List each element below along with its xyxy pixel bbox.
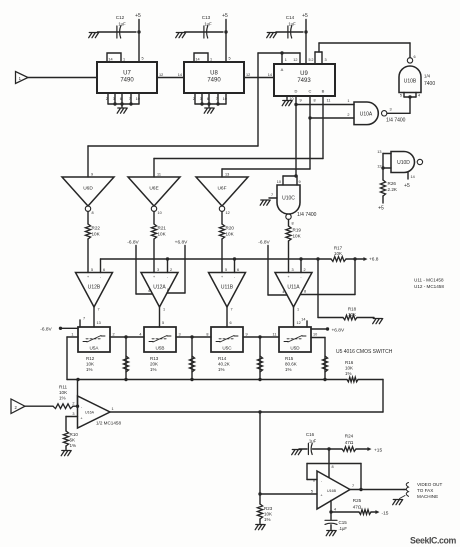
svg-text:-6.8V: -6.8V [40,326,52,332]
svg-text:8: 8 [314,99,316,103]
svg-text:4: 4 [148,289,150,293]
svg-text:R13: R13 [150,356,159,361]
svg-text:1%: 1% [285,367,292,372]
svg-text:1/2 MC1458: 1/2 MC1458 [96,421,121,426]
svg-text:10: 10 [223,97,227,101]
svg-text:10K: 10K [264,511,272,516]
svg-text:1/4: 1/4 [424,74,431,79]
svg-text:5: 5 [91,268,93,272]
svg-text:U10C: U10C [282,196,295,202]
svg-text:3: 3 [157,268,159,272]
svg-text:1: 1 [297,308,299,312]
svg-text:R24: R24 [345,434,354,439]
svg-text:+6.8V: +6.8V [332,327,345,333]
svg-text:+5: +5 [378,206,384,212]
svg-text:3: 3 [72,412,74,416]
svg-text:U10A: U10A [360,111,373,117]
svg-text:C16: C16 [306,432,315,437]
svg-text:U6E: U6E [149,186,158,192]
svg-text:7: 7 [98,308,100,312]
svg-text:7400: 7400 [424,81,435,87]
svg-text:10K: 10K [334,251,342,256]
svg-text:2: 2 [347,113,349,117]
svg-text:3: 3 [390,108,392,112]
svg-text:8: 8 [292,222,294,226]
svg-text:U12B: U12B [88,285,101,291]
svg-text:.1μF: .1μF [308,439,317,444]
svg-text:U10D: U10D [397,160,410,166]
svg-text:47Ω: 47Ω [345,440,354,445]
svg-text:6: 6 [103,268,105,272]
svg-text:4: 4 [139,332,141,336]
svg-text:8: 8 [167,288,169,292]
svg-text:5K: 5K [70,437,77,442]
svg-text:8: 8 [92,211,94,215]
svg-text:+: + [153,275,155,279]
svg-text:U11A: U11A [287,285,300,291]
svg-text:+6.8: +6.8 [369,256,379,262]
svg-text:+15: +15 [374,447,382,453]
svg-text:U16B: U16B [327,489,337,493]
svg-text:8: 8 [206,332,208,336]
svg-text:U6D: U6D [83,186,93,192]
svg-text:C12: C12 [116,15,125,20]
svg-text:-15: -15 [382,510,389,516]
svg-text:5: 5 [229,57,231,61]
svg-text:3: 3 [113,97,115,101]
svg-text:11: 11 [157,173,161,177]
svg-text:SeekIC.com: SeekIC.com [410,536,456,546]
svg-text:1%: 1% [218,367,225,372]
svg-text:MACHINE: MACHINE [417,494,438,499]
svg-text:14: 14 [301,317,305,321]
svg-text:1μF: 1μF [204,22,212,27]
svg-text:8: 8 [332,465,334,469]
svg-text:14: 14 [178,73,182,77]
svg-text:3: 3 [200,97,202,101]
svg-text:R11: R11 [59,384,68,389]
svg-text:7: 7 [129,97,131,101]
svg-text:R18: R18 [348,307,357,312]
svg-text:7490: 7490 [207,78,221,84]
svg-text:U5A: U5A [90,346,100,351]
svg-text:10K: 10K [348,312,356,317]
svg-text:1μF: 1μF [288,22,296,27]
svg-text:6: 6 [414,55,416,59]
svg-text:9: 9 [246,332,248,336]
svg-text:13: 13 [225,173,229,177]
svg-text:3: 3 [325,58,327,62]
svg-text:R22: R22 [92,226,101,231]
svg-text:12: 12 [377,164,381,168]
svg-text:+5: +5 [135,13,141,19]
svg-text:10K: 10K [293,234,302,239]
svg-text:A: A [281,67,284,72]
svg-text:2: 2 [304,268,306,272]
svg-text:+6.8V: +6.8V [175,239,188,245]
svg-text:14: 14 [268,73,272,77]
svg-text:U5D: U5D [290,346,300,351]
svg-text:R16: R16 [345,360,354,365]
svg-text:12: 12 [246,73,250,77]
svg-text:U8: U8 [210,71,218,77]
svg-text:12: 12 [297,321,301,325]
svg-text:5: 5 [162,321,164,325]
svg-text:+5: +5 [302,13,308,19]
svg-text:U10B: U10B [404,79,417,85]
svg-text:5: 5 [142,57,144,61]
svg-text:2: 2 [311,58,313,62]
svg-text:10K: 10K [158,232,167,237]
svg-text:C14: C14 [286,15,295,20]
svg-text:1: 1 [347,99,349,103]
svg-text:10: 10 [289,97,293,101]
svg-text:R19: R19 [293,228,302,233]
svg-text:4: 4 [282,290,284,294]
svg-text:+5: +5 [404,183,410,189]
svg-text:+: + [221,275,223,279]
svg-text:B: B [322,89,325,94]
svg-text:+5: +5 [222,13,228,19]
svg-text:R15: R15 [285,356,294,361]
svg-text:2: 2 [72,402,74,406]
svg-text:5: 5 [225,268,227,272]
svg-text:5: 5 [311,490,313,494]
svg-text:11: 11 [327,99,331,103]
svg-text:4: 4 [418,94,420,98]
svg-text:U5B: U5B [156,346,165,351]
svg-text:1/4 7400: 1/4 7400 [297,212,317,218]
svg-text:TO FAX: TO FAX [417,488,433,493]
svg-text:U5C: U5C [222,346,232,351]
svg-text:U11B: U11B [221,285,234,291]
svg-text:R12: R12 [86,356,95,361]
svg-text:U12 - MC1458: U12 - MC1458 [414,284,444,289]
svg-text:R26: R26 [388,181,397,186]
svg-text:1: 1 [123,58,125,62]
svg-text:4: 4 [334,508,336,512]
svg-text:3: 3 [179,332,181,336]
svg-text:6: 6 [230,321,232,325]
svg-text:9: 9 [300,99,302,103]
svg-text:U6F: U6F [217,186,226,192]
svg-text:80.6K: 80.6K [285,362,297,367]
svg-text:47Ω: 47Ω [353,505,362,510]
svg-text:VIDEO OUT: VIDEO OUT [417,482,442,487]
svg-text:14: 14 [411,175,415,179]
svg-text:2.2K: 2.2K [388,187,398,192]
svg-text:3: 3 [292,268,294,272]
svg-text:1μF: 1μF [118,22,126,27]
svg-text:2: 2 [170,268,172,272]
svg-text:1%: 1% [70,443,77,448]
svg-text:9: 9 [91,173,93,177]
svg-text:7: 7 [352,484,354,488]
svg-text:7490: 7490 [120,78,134,84]
svg-text:10K: 10K [345,366,353,371]
svg-text:U9: U9 [300,71,308,77]
svg-text:40.2K: 40.2K [218,362,230,367]
svg-text:6: 6 [207,97,209,101]
svg-text:+: + [287,275,289,279]
svg-text:C15: C15 [339,520,348,525]
svg-text:10K: 10K [86,362,94,367]
svg-text:13: 13 [377,150,381,154]
svg-text:1%: 1% [59,396,66,401]
svg-text:1: 1 [285,58,287,62]
svg-text:R10: R10 [70,432,79,437]
svg-text:U11 - MC1458: U11 - MC1458 [414,278,444,283]
svg-text:10: 10 [136,97,140,101]
svg-text:9: 9 [299,180,301,184]
svg-text:10: 10 [313,332,317,336]
svg-text:11: 11 [273,332,277,336]
svg-text:.1μF: .1μF [339,526,348,531]
svg-text:10K: 10K [226,232,235,237]
svg-text:2: 2 [193,97,195,101]
svg-text:8: 8 [304,290,306,294]
svg-text:U7: U7 [123,71,131,77]
svg-text:14: 14 [108,58,112,62]
svg-text:U5 4016 CMOS SWITCH: U5 4016 CMOS SWITCH [336,349,393,355]
svg-text:1/4 7400: 1/4 7400 [386,118,406,124]
svg-text:7: 7 [216,97,218,101]
svg-text:10K: 10K [59,390,68,395]
svg-text:1%: 1% [264,517,271,522]
svg-text:14: 14 [195,58,199,62]
svg-text:2: 2 [106,97,108,101]
svg-text:1: 1 [112,407,114,411]
svg-text:-6.8V: -6.8V [127,239,139,245]
svg-text:10: 10 [158,211,162,215]
svg-text:1: 1 [210,58,212,62]
svg-text:R21: R21 [158,226,167,231]
svg-text:6: 6 [120,97,122,101]
svg-text:R17: R17 [334,246,343,251]
svg-text:1%: 1% [345,371,352,376]
svg-text:C13: C13 [202,15,211,20]
svg-text:2: 2 [113,332,115,336]
svg-text:R25: R25 [353,498,362,503]
svg-text:1: 1 [71,332,73,336]
svg-text:20K: 20K [150,362,158,367]
svg-text:1: 1 [163,308,165,312]
svg-text:7: 7 [271,193,273,197]
svg-text:-6.8V: -6.8V [258,239,270,245]
svg-text:U16A: U16A [85,410,95,414]
svg-text:U12A: U12A [153,285,166,291]
svg-text:7493: 7493 [297,78,311,84]
svg-text:R23: R23 [264,506,273,511]
svg-text:C: C [309,89,312,94]
svg-text:12: 12 [159,73,163,77]
svg-text:12: 12 [293,58,297,62]
svg-text:5: 5 [309,58,311,62]
svg-text:D: D [295,89,298,94]
svg-text:R20: R20 [226,226,235,231]
svg-text:13: 13 [97,321,101,325]
svg-text:7: 7 [83,317,85,321]
svg-text:5: 5 [400,94,402,98]
svg-text:10: 10 [277,180,281,184]
svg-text:6: 6 [237,268,239,272]
svg-text:1%: 1% [86,367,93,372]
svg-text:12: 12 [226,211,230,215]
svg-text:10K: 10K [92,232,101,237]
svg-text:+: + [87,275,89,279]
svg-text:7: 7 [231,308,233,312]
svg-text:1%: 1% [150,367,157,372]
svg-text:R14: R14 [218,356,227,361]
